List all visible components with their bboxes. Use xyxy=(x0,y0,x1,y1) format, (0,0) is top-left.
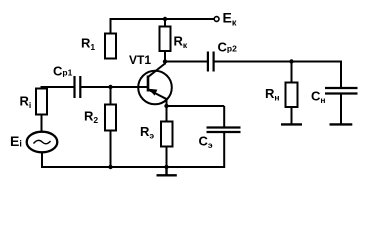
resistor Re xyxy=(161,122,173,147)
wire emitter node vertical to Re xyxy=(166,99,168,123)
capacitor Cp2 xyxy=(208,52,214,72)
wire base horizontal right segment xyxy=(81,86,148,88)
wire Cp2 to output node and right corner xyxy=(215,62,342,88)
node emitter junction xyxy=(164,104,168,108)
resistor Ri xyxy=(36,89,47,115)
wire Ce top stub xyxy=(223,106,225,127)
wire top supply rail xyxy=(110,18,215,20)
wire Rn bottom stub xyxy=(291,107,293,125)
terminal Ek xyxy=(214,17,219,22)
capacitor Cp1 xyxy=(75,76,81,98)
wire source to bottom rail xyxy=(41,152,43,167)
node output junction xyxy=(289,59,293,63)
wire Ce bottom stub xyxy=(223,133,225,168)
node top rail Rk junction xyxy=(163,17,167,21)
wire Ri top corner xyxy=(41,86,43,89)
wire Rn top stub xyxy=(291,62,293,84)
wire R2 bottom stub xyxy=(110,131,112,168)
wire Rk bottom to collector node xyxy=(164,51,166,65)
wire emitter node to Ce xyxy=(167,105,225,107)
resistor R2 xyxy=(105,105,116,131)
transistor VT1 xyxy=(138,64,172,105)
wire bottom ground rail xyxy=(41,166,224,168)
resistor R1 xyxy=(105,34,116,59)
ground (Cn) xyxy=(330,123,353,125)
ground (emitter bottom rail) xyxy=(157,167,177,175)
node base divider junction xyxy=(108,85,112,89)
capacitor Cn xyxy=(325,88,358,94)
wire base horizontal left segment xyxy=(41,86,74,88)
svg-text:VT1: VT1 xyxy=(129,53,151,67)
wire Cn bottom stub xyxy=(340,95,342,125)
wire Re bottom stub xyxy=(166,146,168,167)
resistor Rk xyxy=(160,27,171,52)
capacitor Ce xyxy=(207,128,241,133)
node R2 bottom junction xyxy=(108,165,112,169)
node collector junction xyxy=(163,59,167,63)
wire Rk top stub xyxy=(164,19,166,27)
node ground junction xyxy=(164,165,168,169)
ground (Rn) xyxy=(281,123,302,125)
resistor Rn xyxy=(286,83,298,108)
wire R2 top stub xyxy=(110,87,112,105)
source Ei xyxy=(27,132,58,153)
wire R1 top stub xyxy=(110,19,112,34)
wire collector node to Cp2 xyxy=(165,61,207,63)
wire Ri to source xyxy=(41,114,43,133)
